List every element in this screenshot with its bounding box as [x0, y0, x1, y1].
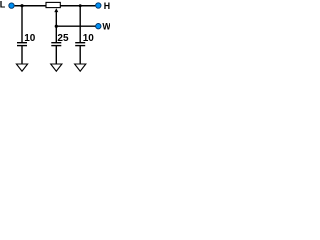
svg-text:W: W — [102, 21, 110, 31]
terminal pin W — [96, 24, 101, 29]
junction node W — [55, 25, 58, 28]
capacitor C2 — [51, 43, 61, 46]
svg-text:L: L — [0, 0, 6, 10]
wire L branch down — [21, 6, 23, 43]
ground under C2 — [51, 64, 62, 71]
wire wiper to W — [56, 25, 95, 27]
resistor R1 (box) — [46, 2, 60, 7]
wire C1 to ground — [21, 46, 23, 64]
junction node on L side — [20, 4, 23, 7]
wire R1 right to H — [60, 5, 95, 7]
capacitor C3 — [75, 43, 85, 46]
ground under C1 — [16, 64, 27, 71]
terminal pin L — [9, 3, 14, 8]
ground under C3 — [75, 64, 86, 71]
wire L to R1 left — [15, 5, 46, 7]
wire W branch down — [55, 26, 57, 42]
terminal pin H — [96, 3, 101, 8]
wire C3 to ground — [79, 46, 81, 64]
wiper arrow of R1 — [54, 8, 58, 12]
wire wiper stem — [55, 10, 57, 26]
wire H branch down — [79, 6, 81, 43]
svg-text:H: H — [104, 1, 110, 11]
capacitor C1 — [17, 43, 27, 46]
junction node on H side — [79, 4, 82, 7]
wire C2 to ground — [55, 46, 57, 64]
